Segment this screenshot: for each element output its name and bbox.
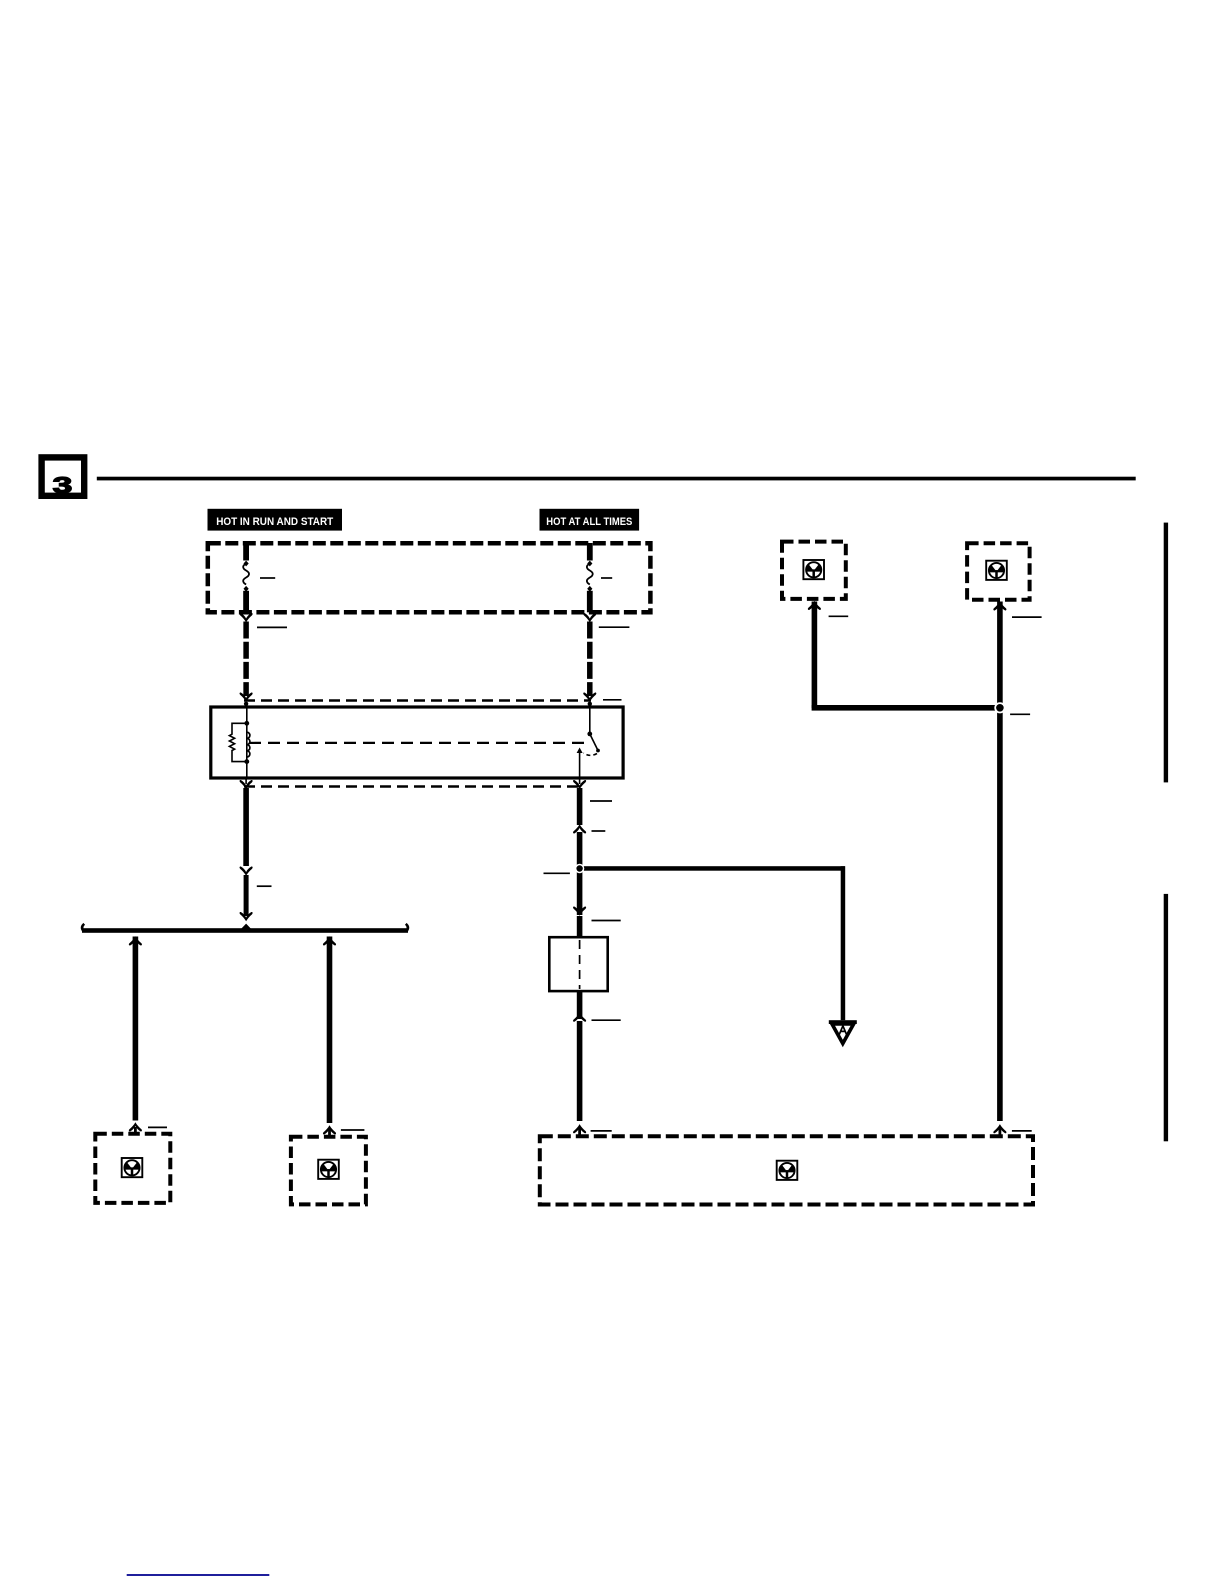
relay switch lever	[590, 734, 598, 751]
middle wire to bottom box	[577, 1021, 583, 1121]
arrow into ground box G2	[323, 1125, 336, 1134]
branch wire to ground A: vertical	[841, 866, 846, 1020]
relay parallel resistor	[229, 723, 246, 761]
module M1 wire label	[829, 615, 849, 617]
fuse F1 value label line	[260, 577, 275, 579]
relay switch pivot dot	[587, 732, 592, 737]
splice arrow below connector	[573, 1013, 586, 1022]
middle wire into connector box	[577, 916, 583, 938]
fuse F1 element	[243, 564, 249, 585]
arrow at relay pin 2	[583, 693, 596, 702]
arrow into bottom box right	[993, 1124, 1006, 1133]
right junction dot	[994, 702, 1005, 713]
arrow below fuse F2	[583, 613, 596, 622]
fuse F1 top stub	[243, 543, 249, 561]
ground box G2 (dashed)	[291, 1137, 366, 1205]
wire label below fuse F1	[257, 626, 287, 628]
relay coil bumps	[247, 732, 250, 757]
dashed wire from F1 to relay	[243, 622, 249, 697]
splice arrow under bus left	[129, 936, 142, 945]
wire label below fuse F2	[599, 626, 630, 628]
fuse box (dashed)	[208, 543, 651, 612]
relay top connector dashed line	[244, 699, 591, 701]
arrow below module M2	[993, 601, 1006, 610]
middle arrow label	[592, 830, 606, 832]
relay bottom connector dashed line	[244, 785, 582, 787]
arrow below module M1	[808, 601, 821, 610]
arrow at relay output pin 4	[573, 780, 586, 789]
ground symbol A triangle	[832, 1024, 854, 1044]
left wire label	[257, 885, 272, 887]
inline connector dashed line	[579, 940, 581, 989]
wire landing peak on bus	[241, 924, 251, 929]
below connector label	[592, 1019, 621, 1021]
relay pin 4 stub	[579, 778, 581, 784]
relay output wire	[579, 752, 581, 778]
junction dot A	[575, 864, 584, 873]
fuse F2 value label line	[601, 577, 612, 579]
middle wire below junction	[577, 870, 583, 915]
arrow into ground box G1	[129, 1122, 142, 1131]
right margin bar 2	[1164, 894, 1168, 1141]
arrow into bottom box left	[573, 1124, 586, 1133]
inline connector box	[549, 937, 607, 991]
bottom box left entry label	[591, 1130, 612, 1132]
right junction label	[1010, 713, 1030, 715]
svg-text:HOT IN RUN AND START: HOT IN RUN AND START	[216, 516, 333, 528]
junction label	[544, 872, 570, 874]
relay actuation dashed line	[249, 742, 589, 744]
relay K1 box	[211, 707, 623, 778]
top right module box M1 (dashed)	[782, 542, 846, 599]
ground bus right end curl	[406, 924, 408, 931]
bottom box right entry label	[1012, 1130, 1032, 1132]
bottom module box (dashed)	[540, 1136, 1033, 1204]
dashed wire from F2 to relay	[587, 622, 593, 697]
wire from M2 down	[997, 602, 1003, 1122]
module M2 icon	[986, 561, 1007, 580]
ground bus left end curl	[82, 924, 84, 931]
relay NO contact arrow	[577, 748, 583, 754]
fuse F2 element	[587, 564, 593, 585]
branch wire to ground A: horizontal	[584, 866, 845, 871]
ground box G1 entry label	[148, 1126, 167, 1128]
fuse F2 top stub	[587, 543, 593, 561]
ground box G1 (dashed)	[95, 1134, 170, 1203]
module M1 icon	[803, 560, 824, 579]
ground box G2 entry label	[341, 1129, 365, 1131]
wire from M1 down	[812, 602, 818, 709]
ground wire G2	[327, 937, 333, 1124]
terminal dot relay pin 1	[244, 702, 248, 706]
terminal dot relay pin 2	[588, 702, 592, 706]
middle wire to junction	[577, 832, 583, 869]
fuse F1 bottom stub	[243, 591, 249, 613]
svg-text:HOT AT ALL TIMES: HOT AT ALL TIMES	[546, 516, 632, 528]
relay coil wire	[246, 704, 248, 778]
relay coil junction dots	[244, 721, 249, 726]
module M2 wire label	[1012, 616, 1042, 618]
fuse F2 bottom stub	[587, 591, 593, 613]
relay switch common wire	[589, 704, 591, 734]
arrow onto ground bus	[240, 912, 253, 921]
top horizontal rule	[97, 477, 1136, 481]
arrow at relay output pin 3	[240, 780, 253, 789]
label HOT IN RUN AND START	[208, 509, 343, 531]
page number box 3	[42, 457, 85, 495]
svg-text:3: 3	[53, 473, 73, 499]
bottom module icon	[777, 1161, 798, 1180]
splice arrow under bus right	[323, 936, 336, 945]
label HOT AT ALL TIMES	[540, 509, 640, 531]
arrow at relay pin 1	[240, 693, 253, 702]
splice arrow left wire	[240, 867, 253, 876]
footer link line (blue)	[127, 1574, 270, 1576]
top right module box M2 (dashed)	[967, 543, 1030, 599]
left output wire lower	[244, 875, 249, 916]
connector arrow label	[592, 920, 621, 922]
relay pin 3 stub	[245, 778, 247, 784]
right margin bar 1	[1164, 523, 1168, 783]
wire from M1 horizontal to junction	[812, 705, 996, 711]
ground bus bar	[82, 928, 408, 933]
splice arrow middle up	[573, 824, 586, 833]
ground box G1 icon	[122, 1158, 143, 1177]
left output wire upper	[243, 788, 249, 866]
ground symbol A letter	[839, 1026, 846, 1034]
relay bottom connector label	[590, 800, 612, 802]
arrow into connector	[573, 907, 586, 916]
ground wire G1	[133, 937, 139, 1121]
middle wire from relay output	[577, 788, 583, 825]
ground box G2 icon	[318, 1160, 339, 1179]
middle wire below connector box	[577, 991, 583, 1019]
relay switch travel arc (dashed)	[584, 753, 598, 755]
relay top connector label	[603, 699, 622, 701]
arrow below fuse F1	[240, 613, 253, 622]
